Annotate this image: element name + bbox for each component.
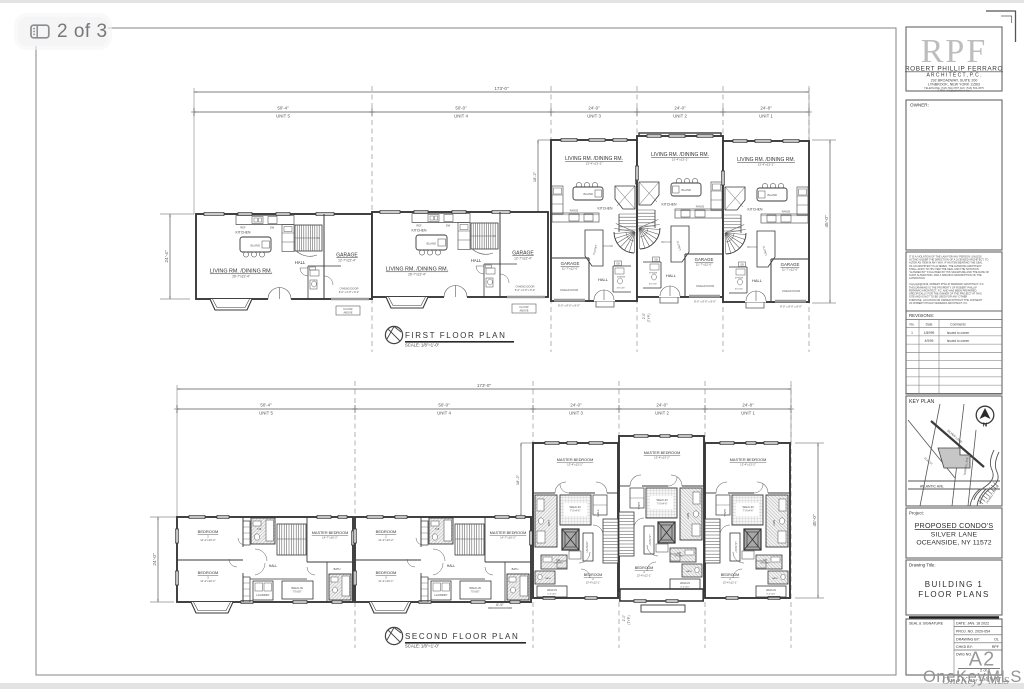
svg-text:ATLANTIC AVE.: ATLANTIC AVE. (920, 485, 944, 489)
svg-text:UNIT 2: UNIT 2 (655, 411, 669, 416)
svg-text:(TYP.): (TYP.) (647, 314, 651, 323)
second floor right dimension 45'-0" (795, 443, 824, 598)
svg-text:REVISIONS:: REVISIONS: (909, 313, 934, 318)
svg-text:2'-0": 2'-0" (642, 313, 646, 319)
unit 2 first floor (635, 133, 723, 304)
svg-text:UNIT 3: UNIT 3 (587, 114, 601, 119)
svg-text:DATE: JAN. 18 2022: DATE: JAN. 18 2022 (956, 622, 989, 626)
first floor plan title (385, 326, 514, 347)
title block: key plan box (906, 396, 1002, 506)
second floor left dimension 24'-0" (150, 517, 177, 602)
svg-text:4/9/99: 4/9/99 (925, 339, 934, 343)
svg-text:24'-8": 24'-8" (742, 403, 754, 408)
second floor unit dimension line (174, 403, 793, 416)
svg-text:FLOOR PLANS: FLOOR PLANS (918, 590, 989, 599)
svg-text:45'-0": 45'-0" (824, 215, 830, 228)
svg-text:UNIT 5: UNIT 5 (259, 411, 273, 416)
svg-text:DRAWING BY:: DRAWING BY: (956, 638, 980, 642)
svg-text:SILVER LANE: SILVER LANE (931, 532, 978, 539)
svg-text:FIRST FLOOR PLAN: FIRST FLOOR PLAN (405, 331, 506, 340)
svg-text:Issued to owner: Issued to owner (947, 331, 970, 335)
svg-text:173'-0": 173'-0" (494, 86, 509, 91)
title block: drawing title box (906, 560, 1002, 618)
svg-text:6'-5": 6'-5" (496, 603, 504, 607)
svg-text:N: N (983, 423, 987, 429)
unit 4 second floor (353, 515, 532, 613)
svg-text:OF ROBERT PHILLIP FERRARO ARCH: OF ROBERT PHILLIP FERRARO ARCHITECT, P.C… (909, 301, 968, 305)
svg-text:24'-8": 24'-8" (760, 106, 772, 111)
svg-text:UNIT 3: UNIT 3 (569, 411, 583, 416)
title block: project box (906, 508, 1002, 558)
svg-text:Comments: Comments (950, 323, 966, 327)
svg-text:24'-0": 24'-0" (656, 403, 668, 408)
second floor unit boundary dashed lines (355, 381, 791, 648)
unit 1 second floor (705, 441, 790, 599)
svg-text:2'-0": 2'-0" (622, 614, 626, 622)
svg-text:Project:: Project: (909, 511, 924, 516)
2'-0" typ note below unit 2 (622, 614, 631, 625)
svg-text:Issued to owner: Issued to owner (947, 339, 970, 343)
svg-text:UNIT 1: UNIT 1 (759, 114, 773, 119)
unit 2 second floor (619, 434, 704, 612)
svg-text:UNIT 2: UNIT 2 (673, 114, 687, 119)
second floor 18'-2" dimension (515, 443, 533, 517)
bottom gray strip (0, 683, 1024, 689)
title block: RPF logo box (905, 27, 1003, 93)
svg-text:PROJ. NO. 2020-054: PROJ. NO. 2020-054 (956, 630, 990, 634)
svg-text:1/8/999: 1/8/999 (924, 331, 935, 335)
OneKey MLS watermark (923, 668, 1022, 687)
svg-text:UNIT 4: UNIT 4 (454, 114, 468, 119)
title block: notes and revisions box (906, 252, 1002, 394)
svg-text:50'-0": 50'-0" (438, 403, 450, 408)
svg-text:Drawing Title:: Drawing Title: (909, 563, 936, 568)
svg-text:50'-4": 50'-4" (277, 106, 289, 111)
svg-text:50'-4": 50'-4" (260, 403, 272, 408)
svg-text:24'-0": 24'-0" (674, 106, 686, 111)
svg-text:SCALE: 1/8"=1'-0": SCALE: 1/8"=1'-0" (405, 343, 440, 348)
svg-text:ROBERT PHILLIP FERRARO: ROBERT PHILLIP FERRARO (905, 66, 1003, 73)
first floor 18'-2" dimension (532, 140, 551, 214)
svg-text:PROPOSED CONDO'S: PROPOSED CONDO'S (915, 521, 994, 530)
svg-text:Date: Date (926, 323, 933, 327)
svg-text:45'-0": 45'-0" (812, 514, 818, 527)
first floor left dimension 24'-4" (160, 214, 194, 299)
svg-text:1: 1 (911, 331, 913, 335)
svg-text:UNIT 5: UNIT 5 (276, 114, 290, 119)
title block: owner box (906, 100, 1002, 250)
svg-text:18'-2": 18'-2" (515, 474, 520, 485)
6'-5" dim below unit 4 (488, 603, 512, 609)
svg-text:KEY PLAN: KEY PLAN (909, 399, 935, 405)
unit 4 first floor (372, 210, 548, 313)
second floor overall dimension 173'-0" (177, 383, 791, 517)
unit 3 first floor (551, 138, 639, 307)
sheet frame (36, 28, 896, 675)
photo viewer badge "2 of 3" (18, 17, 108, 46)
svg-text:E-MAIL: Info@rpfarchitect.com: E-MAIL: Info@rpfarchitect.com (938, 90, 971, 93)
svg-text:DL: DL (994, 638, 999, 642)
second floor plan title (385, 627, 526, 648)
svg-text:RPF: RPF (921, 33, 988, 70)
svg-text:24'-4": 24'-4" (164, 250, 170, 263)
svg-text:BUILDING 1: BUILDING 1 (925, 580, 983, 589)
unit 5 second floor (175, 515, 354, 613)
svg-text:18'-2": 18'-2" (532, 171, 537, 182)
svg-text:OWNER:: OWNER: (910, 103, 929, 108)
svg-text:UNIT 4: UNIT 4 (437, 411, 451, 416)
sheet corner trim marks top-right (986, 11, 1016, 42)
svg-text:24'-0": 24'-0" (152, 553, 158, 566)
first floor unit dimension line (191, 106, 811, 119)
svg-text:SEAL & SIGNATURE: SEAL & SIGNATURE (909, 622, 944, 626)
svg-text:(TYP.): (TYP.) (627, 615, 631, 624)
first floor overall dimension 173'-0" (194, 86, 809, 214)
svg-text:Copyright@2019, ROBERT PHILLIP: Copyright@2019, ROBERT PHILLIP FERRARO A… (909, 282, 985, 286)
first floor unit boundary dashed lines (372, 86, 809, 352)
title block: seal and data box (906, 619, 1002, 675)
svg-text:24'-0": 24'-0" (570, 403, 582, 408)
first floor right dimension 45'-0" (812, 140, 836, 303)
unit 1 first floor (721, 139, 809, 308)
unit 3 second floor (533, 441, 618, 599)
2'-0" typ note below unit 2 first floor (642, 313, 651, 323)
svg-text:SCALE: 1/8"=1'-0": SCALE: 1/8"=1'-0" (405, 644, 440, 649)
svg-text:LYNBROOK, NEW YORK 11563: LYNBROOK, NEW YORK 11563 (928, 82, 980, 86)
svg-text:ALTERATION.: ALTERATION. (909, 276, 926, 280)
svg-text:50'-0": 50'-0" (455, 106, 467, 111)
svg-text:24'-0": 24'-0" (588, 106, 600, 111)
unit 5 first floor (196, 212, 372, 315)
top gray strip (0, 0, 1024, 3)
svg-text:UNIT 1: UNIT 1 (741, 411, 755, 416)
svg-text:No.: No. (910, 323, 915, 327)
svg-text:OCEANSIDE, NY 11572: OCEANSIDE, NY 11572 (916, 540, 991, 547)
svg-text:SECOND FLOOR PLAN: SECOND FLOOR PLAN (405, 632, 519, 641)
svg-text:173'-0": 173'-0" (477, 383, 492, 388)
